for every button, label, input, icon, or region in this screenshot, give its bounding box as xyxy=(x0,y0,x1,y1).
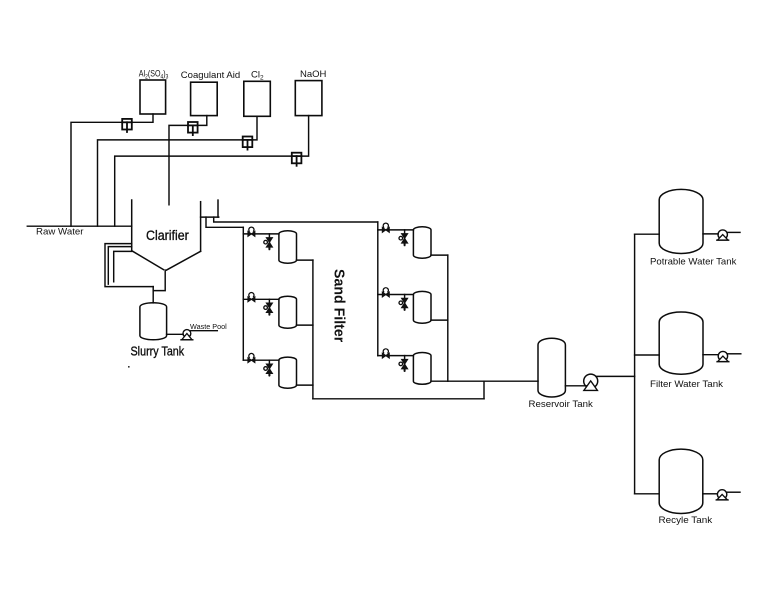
pipe left branch 3 xyxy=(243,359,279,361)
pipe recycle tank to pump xyxy=(703,493,717,495)
filter cylinder L3 xyxy=(279,357,297,388)
pipe left collector xyxy=(312,260,314,399)
svg-text:Coagulant Aid: Coagulant Aid xyxy=(181,70,240,81)
svg-text:Reservoir Tank: Reservoir Tank xyxy=(529,399,594,410)
pipe tank4 to valve4 xyxy=(302,116,309,157)
svg-text:Potrable Water Tank: Potrable Water Tank xyxy=(650,257,737,268)
pipe L2 outlet xyxy=(297,324,313,326)
pipe reservoir pump discharge xyxy=(596,375,635,377)
vessel potable water tank xyxy=(659,189,703,253)
vessel recycle tank xyxy=(659,449,703,513)
drain valve RDV2 xyxy=(399,295,408,311)
valve chemical feeder V1 xyxy=(122,119,132,132)
svg-text:NaOH: NaOH xyxy=(300,69,327,80)
control valve RCV3 xyxy=(382,349,389,358)
pipe manifold to filter tank xyxy=(635,354,660,356)
tank NaOH xyxy=(295,81,322,116)
filter cylinder L2 xyxy=(279,296,297,328)
pipe clarifier upper outlet to right manifold xyxy=(214,217,378,222)
pipe filter tank to pump xyxy=(703,354,718,356)
pipe cone outlet to slurry tank xyxy=(153,270,165,291)
launder inner xyxy=(114,251,132,281)
pipe recycle pump discharge xyxy=(727,491,740,493)
pipe right distribution manifold xyxy=(634,234,636,494)
valve chemical feeder V3 xyxy=(243,137,253,150)
pipe right branch 1 xyxy=(378,229,414,231)
pipe waste pump discharge xyxy=(191,330,218,332)
pipe valve3 to raw water line xyxy=(98,140,244,226)
pipe right branch 3 xyxy=(378,355,414,357)
pump recycle P5 xyxy=(716,490,728,500)
pipe bottom collection xyxy=(313,398,484,400)
pump waste P1 xyxy=(181,330,193,340)
dot mark xyxy=(128,366,130,368)
tank Coagulant Aid xyxy=(191,82,218,115)
control valve RCV2 xyxy=(382,288,389,297)
tank Al2(SO4)3 xyxy=(140,80,166,114)
pipe valve4 to raw water line xyxy=(115,156,293,226)
filter cylinder R2 xyxy=(413,291,431,323)
pipe right branch 2 xyxy=(378,294,414,296)
control valve LCV1 xyxy=(248,227,255,236)
pipe valve2 to clarifier dip xyxy=(169,125,188,204)
svg-text:Waste Pool: Waste Pool xyxy=(190,324,227,331)
filter cylinder R3 xyxy=(413,353,431,385)
pipe potable pump discharge xyxy=(727,231,740,233)
pipe filter pump discharge xyxy=(728,353,741,355)
control valve LCV2 xyxy=(248,293,255,302)
pipe right collector xyxy=(447,255,449,381)
filter cylinder R1 xyxy=(413,227,431,258)
tank Cl2 xyxy=(244,81,270,116)
pipe L1 outlet xyxy=(297,259,313,261)
drain valve RDV3 xyxy=(399,356,408,372)
pipe R1 outlet xyxy=(431,254,448,256)
vessel slurry tank xyxy=(140,303,167,340)
svg-text:Slurry Tank: Slurry Tank xyxy=(131,344,185,359)
pipe raw water xyxy=(27,225,131,227)
vessel filter water tank xyxy=(659,312,703,374)
control valve LCV3 xyxy=(248,353,255,362)
vessel reservoir tank xyxy=(538,338,565,397)
pipe riser bottom to outlet xyxy=(483,381,485,399)
valve chemical feeder V2 xyxy=(188,122,198,135)
svg-text:Raw Water: Raw Water xyxy=(36,227,84,238)
drain valve LDV1 xyxy=(264,234,273,250)
svg-text:Cl2: Cl2 xyxy=(251,70,264,82)
pipe tank2 to valve2 xyxy=(197,116,207,126)
pipe L3 outlet xyxy=(297,384,313,386)
drain valve LDV2 xyxy=(264,299,273,315)
filter cylinder L1 xyxy=(279,231,297,263)
pipe R3 outlet to reservoir xyxy=(431,380,538,382)
pipe R2 outlet xyxy=(431,319,448,321)
pipe launder down to slurry tank xyxy=(152,287,154,303)
pump potable P3 xyxy=(717,230,729,240)
pipe tank1 to valve1 xyxy=(131,114,153,122)
pipe potable tank to pump xyxy=(703,233,718,235)
drain valve RDV1 xyxy=(399,230,408,246)
svg-text:Sand Filter: Sand Filter xyxy=(331,269,348,342)
pipe reservoir to pump xyxy=(565,385,586,387)
vessel clarifier xyxy=(132,200,219,270)
svg-text:Filter Water Tank: Filter Water Tank xyxy=(650,379,723,390)
pipe left branch 1 xyxy=(243,233,279,235)
svg-text:Recyle Tank: Recyle Tank xyxy=(659,515,713,526)
drain valve LDV3 xyxy=(264,360,273,376)
pipe manifold to recycle tank xyxy=(635,493,659,495)
valve chemical feeder V4 xyxy=(292,153,302,166)
pump filter P4 xyxy=(717,351,729,361)
pipe right manifold xyxy=(377,222,379,356)
pipe left manifold xyxy=(242,227,244,360)
pipe manifold to potable tank xyxy=(635,233,660,235)
pipe valve1 to raw water line xyxy=(71,122,123,226)
launder outer xyxy=(105,244,153,287)
launder middle xyxy=(108,247,131,285)
pipe slurry tank to waste pump xyxy=(167,333,184,335)
pipe tank3 to valve3 xyxy=(252,116,257,140)
svg-text:Clarifier: Clarifier xyxy=(146,228,189,243)
pipe clarifier lower outlet to left manifold xyxy=(206,217,243,227)
pump reservoir P2 xyxy=(584,374,598,390)
control valve RCV1 xyxy=(382,223,389,232)
pipe left branch 2 xyxy=(243,298,279,300)
svg-text:Al2(SO4)3: Al2(SO4)3 xyxy=(139,67,168,80)
